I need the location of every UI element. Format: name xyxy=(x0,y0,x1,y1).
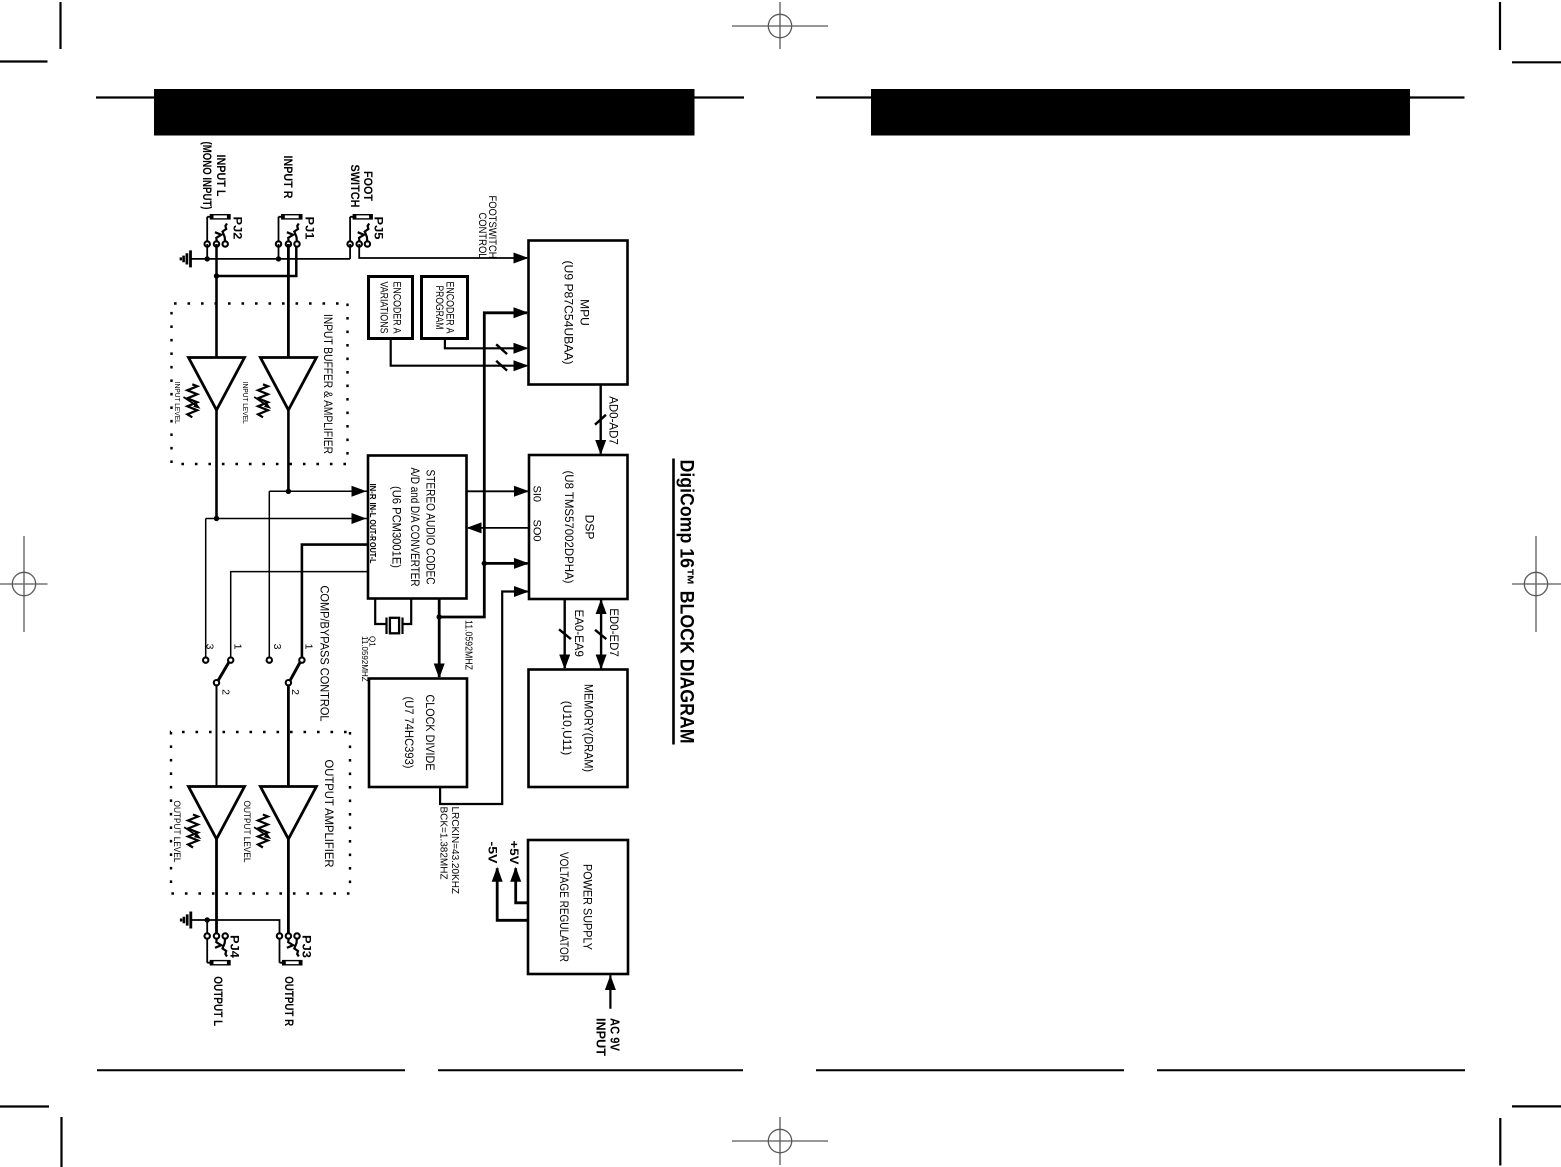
svg-text:(U6 PCM3001E): (U6 PCM3001E) xyxy=(389,486,403,568)
svg-text:INPUT L: INPUT L xyxy=(214,154,228,196)
svg-text:INPUT: INPUT xyxy=(593,1018,607,1056)
svg-text:OUTPUT LEVEL: OUTPUT LEVEL xyxy=(171,800,181,862)
svg-text:PJ1: PJ1 xyxy=(302,216,316,239)
svg-text:(U9 P87C54UBAA): (U9 P87C54UBAA) xyxy=(561,260,575,364)
svg-text:STEREO AUDIO CODEC: STEREO AUDIO CODEC xyxy=(423,469,437,584)
svg-text:PJ4: PJ4 xyxy=(227,935,241,958)
svg-text:OUTPUT R: OUTPUT R xyxy=(282,976,296,1026)
svg-text:IN-L: IN-L xyxy=(368,502,378,517)
svg-text:ENCODER A: ENCODER A xyxy=(390,281,402,334)
svg-text:DSP: DSP xyxy=(582,514,596,539)
svg-text:FOOT: FOOT xyxy=(361,171,375,202)
svg-text:-5V: -5V xyxy=(485,841,499,863)
svg-text:EA0-EA9: EA0-EA9 xyxy=(572,609,584,656)
svg-text:OUT-R: OUT-R xyxy=(368,519,378,541)
svg-text:MEMORY(DRAM): MEMORY(DRAM) xyxy=(581,684,595,772)
svg-text:2: 2 xyxy=(219,689,231,695)
svg-text:DigiComp 16™ BLOCK DIAGRAM: DigiComp 16™ BLOCK DIAGRAM xyxy=(675,459,696,743)
svg-text:POWER SUPPLY: POWER SUPPLY xyxy=(580,864,594,950)
svg-text:OUTPUT AMPLIFIER: OUTPUT AMPLIFIER xyxy=(322,759,334,867)
svg-text:VARIATIONS: VARIATIONS xyxy=(377,281,389,333)
svg-text:11.0592MHZ: 11.0592MHZ xyxy=(462,620,473,670)
svg-text:SO0: SO0 xyxy=(530,519,542,541)
svg-text:PROGRAM: PROGRAM xyxy=(433,285,445,329)
svg-text:3: 3 xyxy=(271,643,283,649)
svg-text:AD0-AD7: AD0-AD7 xyxy=(606,396,618,445)
svg-text:11.0592MHZ: 11.0592MHZ xyxy=(360,636,369,682)
svg-text:CLOCK DIVIDE: CLOCK DIVIDE xyxy=(423,694,437,770)
svg-text:VOLTAGE REGULATOR: VOLTAGE REGULATOR xyxy=(557,852,571,962)
svg-text:OUT-L: OUT-L xyxy=(368,542,378,564)
svg-text:3: 3 xyxy=(203,643,215,649)
svg-text:(U8 TMS57002DPHA): (U8 TMS57002DPHA) xyxy=(562,470,576,583)
svg-text:(U10,U11): (U10,U11) xyxy=(560,700,574,754)
svg-text:SI0: SI0 xyxy=(530,485,542,502)
svg-text:(U7 74HC393): (U7 74HC393) xyxy=(402,696,416,768)
svg-text:MPU: MPU xyxy=(577,299,591,326)
svg-text:INPUT BUFFER & AMPLIFIER: INPUT BUFFER & AMPLIFIER xyxy=(321,314,333,454)
svg-text:2: 2 xyxy=(289,689,301,695)
svg-text:CONTROL: CONTROL xyxy=(476,212,488,258)
svg-text:+5V: +5V xyxy=(507,840,521,864)
svg-text:(MONO INPUT): (MONO INPUT) xyxy=(200,141,214,209)
svg-text:LRCKIN=43.20KHZ: LRCKIN=43.20KHZ xyxy=(449,806,460,894)
svg-text:IN-R: IN-R xyxy=(368,483,378,499)
svg-text:COMP/BYPASS CONTROL: COMP/BYPASS CONTROL xyxy=(317,585,329,722)
svg-text:SWITCH: SWITCH xyxy=(348,164,362,207)
svg-text:INPUT LEVEL: INPUT LEVEL xyxy=(173,381,182,423)
svg-text:PJ2: PJ2 xyxy=(230,216,244,239)
svg-text:PJ3: PJ3 xyxy=(299,935,313,958)
svg-text:OUTPUT LEVEL: OUTPUT LEVEL xyxy=(242,800,252,862)
svg-text:AC 9V: AC 9V xyxy=(607,1018,621,1052)
svg-text:INPUT LEVEL: INPUT LEVEL xyxy=(240,381,249,423)
svg-text:OUTPUT L: OUTPUT L xyxy=(210,976,224,1026)
svg-text:ED0-ED7: ED0-ED7 xyxy=(607,608,619,657)
svg-text:1: 1 xyxy=(231,643,243,649)
svg-text:INPUT R: INPUT R xyxy=(281,155,295,198)
svg-text:1: 1 xyxy=(302,643,314,649)
svg-text:A/D and D/A CONVERTER: A/D and D/A CONVERTER xyxy=(408,467,422,586)
svg-text:BCK=1.382MHZ: BCK=1.382MHZ xyxy=(437,806,448,879)
svg-text:PJ5: PJ5 xyxy=(371,216,385,239)
